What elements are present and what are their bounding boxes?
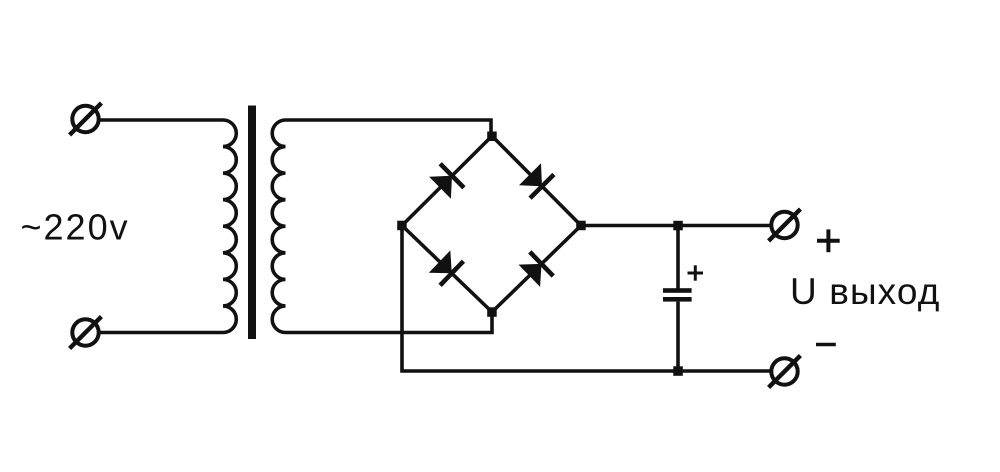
wire X1 to primary top — [99, 118, 223, 122]
terminal - output — [769, 356, 801, 388]
capacitor C1 top lead — [676, 226, 680, 290]
node square bridge right — [576, 221, 586, 231]
label + at plus terminal — [817, 229, 840, 252]
capacitor C1 plates — [663, 288, 692, 301]
wire secondary top to bridge top node — [286, 120, 492, 138]
node square bridge left — [397, 221, 407, 231]
wire bridge left node down and right to minus terminal — [402, 227, 770, 371]
terminal X2 bottom-left input — [70, 317, 102, 349]
transformer T1 core — [248, 106, 256, 340]
transformer T1 secondary winding — [272, 120, 285, 332]
svg-text:U выход: U выход — [790, 271, 940, 312]
terminal X1 top-left input — [70, 103, 102, 135]
diode VD1 — [429, 164, 464, 199]
wire X2 to primary bottom — [99, 331, 223, 335]
node square capacitor top junction — [673, 221, 683, 231]
node square bridge top — [487, 132, 497, 142]
transformer T1 primary winding — [223, 120, 236, 332]
diode VD3 — [429, 250, 464, 285]
wire secondary bottom to bridge bottom node — [286, 310, 493, 333]
capacitor C1 polarity label + — [688, 265, 704, 280]
node square capacitor bottom junction — [673, 366, 683, 376]
wire bridge side B-R — [492, 226, 581, 313]
label - at minus terminal — [816, 343, 836, 347]
wire bridge side L-T — [402, 136, 492, 226]
diode VD2 — [519, 163, 554, 198]
svg-text:~220v: ~220v — [21, 207, 130, 248]
wire bridge right node to plus terminal — [581, 224, 770, 228]
wire bridge side T-R — [492, 136, 581, 226]
diode VD4 — [519, 252, 554, 287]
node square bridge bottom — [487, 307, 497, 317]
wire bridge side L-B — [402, 226, 492, 313]
capacitor C1 bottom lead — [676, 302, 680, 371]
terminal + output — [769, 209, 801, 241]
